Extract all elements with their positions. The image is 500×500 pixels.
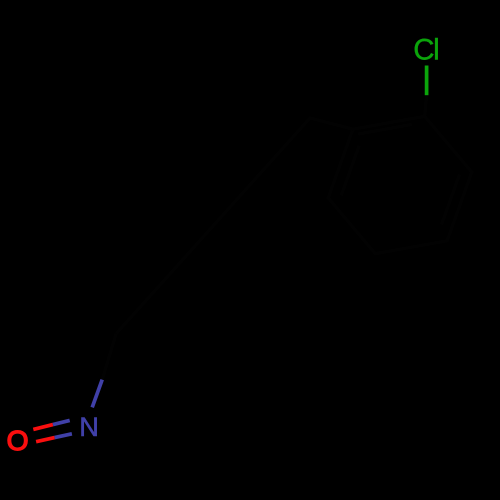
bond C10-N carbon half (black) (102, 334, 116, 380)
double bond N=O lower line, oxygen half (red) (36, 438, 55, 442)
svg-text:N: N (79, 411, 99, 442)
svg-text:O: O (7, 424, 29, 456)
double bond N=O upper line, oxygen half (red) (33, 425, 53, 430)
double bond N=O lower line, nitrogen half (blue) (55, 434, 72, 438)
bond Cl-C1 chlorine half (green) (425, 66, 429, 96)
benzene ring (carbon bonds, black on black) (328, 116, 472, 253)
bond C1-Cl upper carbon half (black) (425, 95, 427, 116)
alkyl chain C7-C10 (carbon bonds, black on black) (116, 118, 353, 334)
bond N-C10 nitrogen half (blue) (92, 380, 102, 408)
double bond N=O upper line, nitrogen half (blue) (53, 420, 70, 424)
svg-text:Cl: Cl (413, 33, 440, 66)
